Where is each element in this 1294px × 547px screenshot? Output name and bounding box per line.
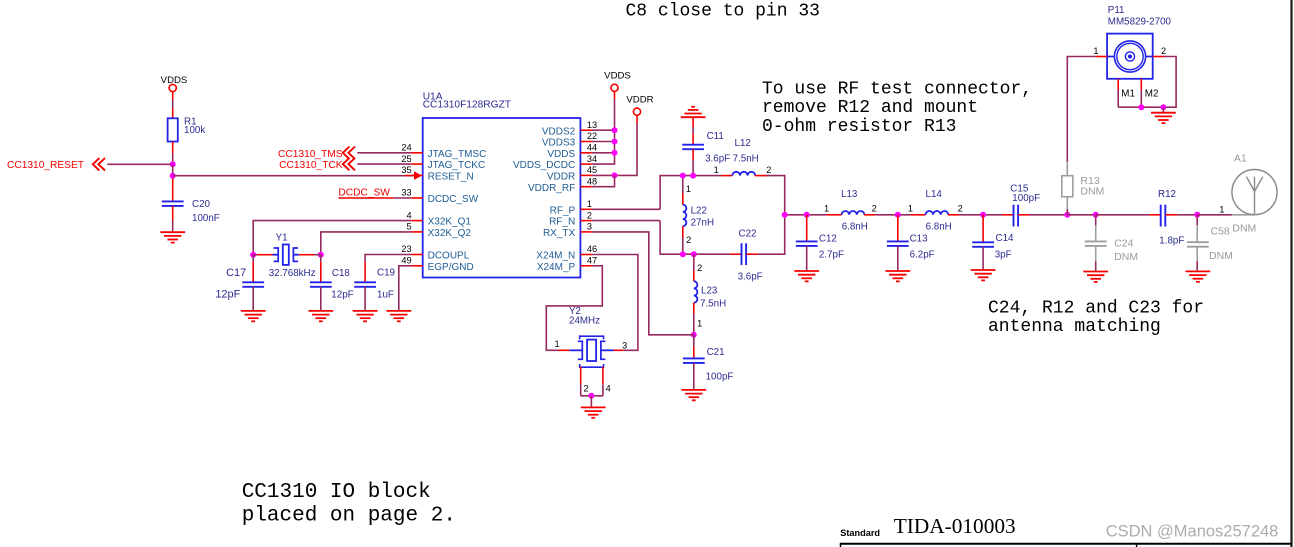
svg-text:VDDR: VDDR: [626, 95, 653, 106]
wire: [875, 214, 911, 216]
label U1A: [423, 92, 443, 103]
value 3.6pF (C22): [738, 272, 763, 283]
svg-text:X32K_Q2: X32K_Q2: [428, 228, 472, 239]
svg-text:44: 44: [587, 143, 597, 153]
wire RF_N: [592, 220, 660, 222]
junction: [1138, 104, 1144, 110]
value 12pF: [215, 289, 240, 301]
svg-text:C8 close to pin 33: C8 close to pin 33: [626, 2, 820, 22]
value DNM (R13): [1080, 185, 1104, 197]
wire: [1177, 214, 1197, 216]
svg-text:100pF: 100pF: [706, 371, 734, 382]
wire: [592, 152, 615, 154]
svg-text:L14: L14: [926, 189, 943, 200]
svg-text:CC1310F128RGZT: CC1310F128RGZT: [423, 100, 511, 111]
value DNM (C24): [1114, 251, 1138, 263]
svg-text:Standard: Standard: [840, 528, 880, 538]
wire CC1310_RESET: [107, 163, 172, 165]
svg-text:12pF: 12pF: [331, 290, 353, 301]
wire RF_P riser: [660, 176, 721, 210]
pin 46 X24M_N: [536, 244, 597, 261]
capacitor C17: [242, 255, 264, 311]
ground: [353, 311, 378, 321]
inductor L13: [827, 211, 876, 215]
ground: [681, 390, 706, 400]
svg-text:C20: C20: [192, 199, 211, 210]
svg-text:3.6pF: 3.6pF: [738, 272, 763, 283]
note: C8 close to pin 33: [626, 2, 820, 22]
pin M2 (P11): [1141, 79, 1158, 107]
wire: [615, 123, 638, 175]
svg-text:46: 46: [587, 244, 597, 254]
svg-text:48: 48: [587, 176, 597, 186]
svg-text:13: 13: [587, 120, 597, 130]
value 100nF: [192, 213, 220, 224]
junction: [782, 212, 788, 218]
ground: [1083, 272, 1108, 282]
capacitor C18: [310, 255, 332, 311]
value MM5829-2700: [1108, 17, 1172, 28]
connector P11 MM5829-2700: [1107, 34, 1153, 79]
pin 2 (L23): [697, 263, 702, 273]
svg-text:CC1310_TMS: CC1310_TMS: [278, 149, 343, 160]
svg-text:DNM: DNM: [1114, 251, 1138, 263]
svg-text:M1: M1: [1121, 89, 1135, 100]
net port CC1310_TMS chevron: [343, 147, 355, 159]
pin 47 X24M_P: [537, 256, 597, 273]
svg-text:1: 1: [824, 204, 829, 214]
svg-text:RF_P: RF_P: [550, 205, 576, 216]
power VDDS (R1 pull-up): [161, 75, 188, 92]
svg-text:6.2pF: 6.2pF: [910, 249, 935, 260]
label C58: [1211, 226, 1230, 238]
svg-text:VDDS3: VDDS3: [542, 138, 576, 149]
svg-text:45: 45: [587, 165, 597, 175]
pin M1 (P11): [1118, 79, 1135, 107]
svg-text:A1: A1: [1234, 153, 1247, 165]
svg-text:X24M_N: X24M_N: [536, 251, 575, 262]
svg-text:4: 4: [606, 384, 611, 394]
svg-text:C19: C19: [377, 268, 395, 279]
ground: [1151, 113, 1176, 123]
svg-text:remove R12 and mount: remove R12 and mount: [762, 98, 978, 118]
label P11: [1108, 5, 1125, 16]
wire: [592, 129, 615, 131]
pin 2 (P11): [1153, 46, 1166, 57]
svg-text:C21: C21: [707, 347, 725, 358]
svg-text:X32K_Q1: X32K_Q1: [428, 217, 472, 228]
value 100pF (C21): [706, 371, 734, 382]
wire: [592, 174, 615, 176]
label C12: [819, 233, 837, 244]
label C17: [226, 267, 246, 279]
wire R1 to node: [172, 153, 174, 164]
capacitor C58 (DNM): [1187, 215, 1209, 272]
inductor L22: [683, 176, 687, 255]
label Y1: [276, 232, 288, 243]
svg-text:C22: C22: [739, 228, 757, 239]
svg-text:DCDC_SW: DCDC_SW: [428, 194, 479, 205]
pin 25 JTAG_TCKC: [401, 154, 485, 171]
label R1: [184, 117, 197, 128]
pin 23 DCOUPL: [401, 244, 469, 261]
svg-text:1: 1: [1093, 46, 1098, 56]
net CC1310_TMS: [278, 149, 343, 160]
wire P11 shield rail: [1118, 106, 1163, 108]
svg-text:JTAG_TCKC: JTAG_TCKC: [428, 160, 486, 171]
svg-text:X24M_P: X24M_P: [537, 262, 576, 273]
svg-text:0-ohm resistor R13: 0-ohm resistor R13: [762, 117, 956, 137]
svg-text:32.768kHz: 32.768kHz: [269, 268, 316, 279]
pin 2 RF_N: [549, 210, 592, 227]
wire RF output node: [785, 214, 827, 216]
wire: [592, 141, 615, 143]
svg-text:1: 1: [697, 318, 702, 328]
ground: [885, 271, 910, 281]
antenna A1: [1232, 170, 1277, 215]
wire VDDS to R1: [172, 92, 174, 100]
svg-text:6.8nH: 6.8nH: [926, 221, 952, 232]
svg-text:MM5829-2700: MM5829-2700: [1108, 17, 1172, 28]
ground: [581, 407, 606, 417]
pin 3 RX_TX: [543, 222, 592, 239]
svg-text:2: 2: [584, 384, 589, 394]
pin 2 and pin 4 leads (Y2 case): [581, 367, 603, 396]
svg-text:C14: C14: [996, 233, 1015, 244]
label Y2: [569, 306, 581, 317]
wire: [172, 100, 174, 108]
label R13: [1080, 175, 1099, 187]
ground: [794, 271, 819, 281]
capacitor C24 (DNM): [1085, 215, 1107, 272]
svg-text:To use RF test connector,: To use RF test connector,: [762, 80, 1032, 100]
pin 44 VDDS: [547, 143, 597, 160]
svg-text:2.7pF: 2.7pF: [819, 249, 844, 260]
svg-text:49: 49: [401, 256, 411, 266]
wire: [592, 99, 615, 164]
junction: [612, 127, 618, 133]
pin 1 RF_P: [550, 199, 592, 216]
pin 49 EGP/GND: [401, 256, 473, 273]
junction Y1 pin2 node: [318, 252, 324, 258]
watermark CSDN @Manos257248: [1106, 522, 1279, 540]
inductor L12: [721, 172, 769, 176]
value 6.8nH (L13): [842, 221, 868, 232]
svg-text:C13: C13: [910, 233, 929, 244]
label L22: [691, 206, 707, 217]
value 100pF (C15): [1012, 193, 1040, 204]
svg-text:CC1310_RESET: CC1310_RESET: [7, 160, 84, 171]
svg-text:DNM: DNM: [1080, 185, 1104, 197]
wire: [1197, 214, 1232, 216]
junction C12 node: [804, 212, 810, 218]
svg-text:RX_TX: RX_TX: [543, 228, 576, 239]
svg-text:22: 22: [587, 131, 597, 141]
svg-text:JTAG_TMSC: JTAG_TMSC: [428, 149, 487, 160]
value DNM (C58): [1209, 250, 1233, 262]
svg-text:VDDS: VDDS: [547, 149, 575, 160]
svg-text:TIDA-010003: TIDA-010003: [894, 514, 1016, 538]
svg-text:3.6pF: 3.6pF: [705, 154, 730, 165]
wire TCK to pin 25: [357, 163, 411, 165]
wire X32K_Q1 to Y1: [253, 221, 411, 255]
value 2.7pF: [819, 249, 844, 260]
pin 1 (L13): [824, 204, 829, 214]
title TIDA-010003: [894, 514, 1016, 538]
inductor L14: [911, 211, 959, 215]
svg-text:5: 5: [406, 222, 411, 232]
pin 35 RESET_N: [401, 165, 473, 182]
value 3pF: [995, 250, 1012, 261]
junction: [680, 173, 686, 179]
label C18: [332, 268, 351, 279]
wire VDDR rail: [636, 115, 638, 123]
junction: [1160, 104, 1166, 110]
svg-text:VDDS_DCDC: VDDS_DCDC: [513, 160, 575, 171]
value 7.5nH (L12): [733, 154, 759, 165]
junction: [612, 172, 618, 178]
value 24MHz: [569, 316, 600, 327]
junction C13 node: [895, 212, 901, 218]
svg-text:L23: L23: [701, 285, 718, 296]
wire: [766, 176, 785, 215]
svg-text:C18: C18: [332, 268, 351, 279]
ground (inverted, above C11): [681, 107, 706, 117]
capacitor C11: [682, 117, 704, 175]
svg-text:DNM: DNM: [1232, 222, 1256, 234]
pin 2 (L22): [686, 235, 691, 245]
svg-text:C24: C24: [1114, 237, 1133, 249]
wire DCDC_SW: [338, 197, 394, 199]
wire antenna feed: [1232, 214, 1255, 216]
junction: [612, 150, 618, 156]
svg-text:47: 47: [587, 256, 597, 266]
ground: [241, 311, 266, 321]
svg-text:35: 35: [401, 165, 411, 175]
wire: [590, 396, 592, 408]
svg-text:VDDR: VDDR: [547, 172, 575, 183]
capacitor C15: [1002, 205, 1029, 227]
capacitor R12 (series): [1149, 205, 1177, 227]
junction: [680, 251, 686, 257]
resistor R1: [168, 108, 178, 153]
svg-text:M2: M2: [1145, 89, 1159, 100]
net CC1310_TCK: [279, 160, 343, 171]
wire: [172, 164, 174, 175]
wire: [959, 214, 1002, 216]
wire RF_P: [592, 208, 660, 210]
value 27nH: [691, 217, 714, 228]
svg-text:3: 3: [587, 222, 592, 232]
svg-text:2: 2: [958, 204, 963, 214]
svg-text:C24, R12 and C23 for: C24, R12 and C23 for: [988, 299, 1204, 319]
svg-text:VDDS: VDDS: [604, 71, 631, 82]
label L14: [926, 189, 943, 200]
svg-text:6.8nH: 6.8nH: [842, 221, 868, 232]
capacitor C19: [354, 262, 376, 311]
wire EGP/GND to ground: [399, 266, 412, 311]
svg-text:2: 2: [872, 204, 877, 214]
svg-text:3pF: 3pF: [995, 250, 1012, 261]
pin 22 VDDS3: [542, 131, 597, 148]
value 6.8nH (L14): [926, 221, 952, 232]
svg-text:2: 2: [1161, 46, 1166, 56]
pin 1 (L12): [714, 165, 719, 175]
svg-text:2: 2: [686, 235, 691, 245]
pin 2 (L12): [766, 165, 771, 175]
pin 1 (Y2): [554, 339, 559, 349]
svg-text:4: 4: [406, 210, 411, 220]
wire: [1067, 214, 1095, 216]
pin 33 DCDC_SW: [401, 188, 478, 205]
svg-text:CC1310 IO block: CC1310 IO block: [242, 481, 431, 504]
svg-text:P11: P11: [1108, 5, 1125, 16]
capacitor C14: [972, 215, 994, 270]
pin 35 input arrow: [405, 171, 422, 180]
label R12: [1158, 189, 1176, 200]
wire: [1162, 107, 1164, 113]
label L12: [735, 138, 751, 149]
svg-text:23: 23: [401, 244, 411, 254]
inductor L23: [694, 254, 698, 335]
svg-text:2: 2: [697, 263, 702, 273]
svg-text:2: 2: [587, 210, 592, 220]
svg-text:EGP/GND: EGP/GND: [428, 262, 474, 273]
svg-text:C11: C11: [707, 131, 724, 142]
svg-text:C17: C17: [226, 267, 246, 279]
svg-text:34: 34: [587, 154, 597, 164]
svg-text:RESET_N: RESET_N: [428, 172, 474, 183]
pin 2 (Y2): [584, 384, 589, 394]
svg-text:CC1310_TCK: CC1310_TCK: [279, 160, 343, 171]
svg-text:C12: C12: [819, 233, 837, 244]
svg-text:DNM: DNM: [1209, 250, 1233, 262]
svg-text:33: 33: [401, 188, 411, 198]
crystal Y1: [253, 245, 321, 265]
net port CC1310_TCK chevron: [343, 158, 355, 170]
svg-text:L13: L13: [841, 189, 858, 200]
junction: [691, 251, 697, 257]
junction Y2 case ground: [588, 393, 594, 399]
label C19: [377, 268, 395, 279]
svg-text:3: 3: [622, 341, 627, 351]
svg-text:L12: L12: [735, 138, 751, 149]
junction C14 node: [980, 212, 986, 218]
label C11: [707, 131, 724, 142]
label C20: [192, 199, 211, 210]
capacitor C12: [796, 215, 818, 271]
svg-text:24: 24: [401, 143, 411, 153]
pin 1 (A1): [1219, 205, 1224, 215]
junction: [612, 139, 618, 145]
svg-text:1: 1: [554, 339, 559, 349]
junction R13 node: [1064, 212, 1070, 218]
title block label Standard: [840, 528, 880, 538]
junction node RESET: [170, 161, 176, 167]
svg-text:L22: L22: [691, 206, 707, 217]
junction C58 node: [1194, 212, 1200, 218]
capacitor C20: [162, 178, 184, 232]
wire: [1096, 214, 1150, 216]
svg-text:1: 1: [587, 199, 592, 209]
note: CC1310 IO block: [242, 481, 456, 527]
wire VDDR_RF: [592, 175, 615, 186]
ground: [386, 311, 411, 321]
note: RF test connector: [762, 80, 1032, 137]
label L23: [701, 285, 718, 296]
net CC1310_RESET: [7, 160, 84, 171]
svg-text:1: 1: [714, 165, 719, 175]
label C21: [707, 347, 725, 358]
value CC1310F128RGZT: [423, 100, 511, 111]
wire RF_N dropper: [660, 221, 730, 255]
svg-text:25: 25: [401, 154, 411, 164]
value 6.2pF: [910, 249, 935, 260]
ground: [1186, 271, 1211, 281]
pin 1 (L14): [908, 204, 913, 214]
capacitor C21: [683, 335, 705, 390]
capacitor C13: [887, 215, 909, 271]
wire DCOUPL to C19: [365, 255, 411, 263]
pin 1 (L22): [686, 184, 691, 194]
crystal Y2: [559, 336, 624, 367]
junction C24 node: [1093, 212, 1099, 218]
svg-text:1: 1: [908, 204, 913, 214]
svg-text:R12: R12: [1158, 189, 1176, 200]
svg-text:DCDC_SW: DCDC_SW: [338, 188, 390, 199]
label A1: [1234, 153, 1247, 165]
svg-text:12pF: 12pF: [215, 289, 240, 301]
svg-text:7.5nH: 7.5nH: [733, 154, 759, 165]
value 100k: [184, 125, 205, 136]
svg-text:1: 1: [1219, 205, 1224, 215]
op-amp U1A CC1310F128RGZT body: [423, 118, 581, 278]
wire P11 pin2 to ground rail: [1163, 57, 1176, 108]
ground: [971, 270, 996, 280]
wire: [758, 215, 785, 254]
pin 45 VDDR: [547, 165, 597, 182]
svg-text:100k: 100k: [184, 125, 205, 136]
wire X24M_N to Y2: [592, 255, 638, 351]
pin 24 JTAG_TMSC: [401, 143, 486, 160]
value 7.5nH (L23): [700, 298, 726, 309]
svg-text:1uF: 1uF: [377, 289, 394, 300]
pin 1 (L23): [697, 318, 702, 328]
wire VDDS rail: [614, 91, 616, 99]
svg-text:2: 2: [766, 165, 771, 175]
svg-text:VDDS2: VDDS2: [542, 126, 576, 137]
wire: [1029, 214, 1067, 216]
pin 4 (Y2): [606, 384, 611, 394]
wire RX_TX: [592, 232, 694, 335]
svg-text:1: 1: [686, 184, 691, 194]
pin 1 (P11): [1093, 46, 1107, 57]
label C22: [739, 228, 757, 239]
power VDDR: [626, 95, 653, 116]
value 32.768kHz: [269, 268, 316, 279]
pin 13 VDDS2: [542, 120, 597, 137]
label C24: [1114, 237, 1133, 249]
pin 4 X32K_Q1: [406, 210, 471, 227]
pin 34 VDDS_DCDC: [513, 154, 597, 171]
junction node RX_TX/L23/C21: [691, 332, 697, 338]
power VDDS (U1A supply): [604, 71, 631, 92]
wire X32K_Q2 to Y1: [321, 232, 412, 255]
value 1.8pF (R12): [1159, 235, 1184, 246]
wire P11 pin1 to R13: [1067, 57, 1096, 162]
value DNM (A1): [1232, 222, 1256, 234]
svg-text:placed on page 2.: placed on page 2.: [242, 504, 456, 527]
